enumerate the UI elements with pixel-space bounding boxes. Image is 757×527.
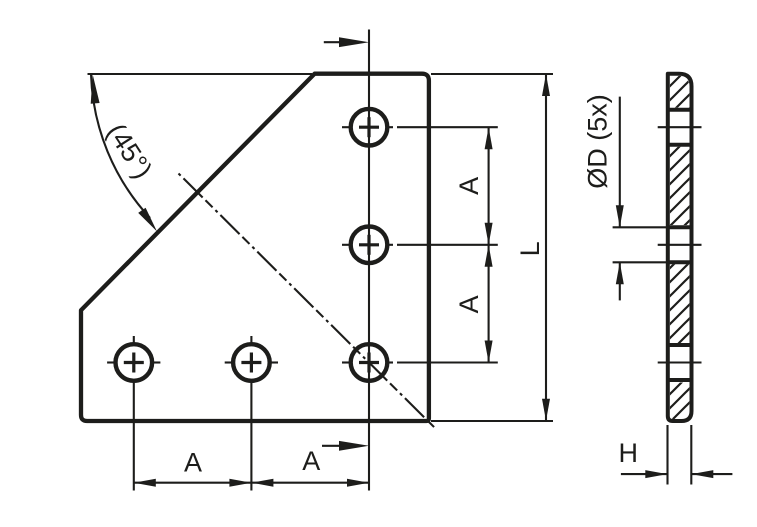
svg-text:ØD (5x): ØD (5x) [583, 94, 613, 189]
svg-text:A: A [454, 295, 484, 313]
svg-text:A: A [184, 448, 202, 478]
svg-text:(45°): (45°) [101, 118, 158, 184]
svg-text:A: A [302, 446, 320, 476]
svg-text:A: A [454, 177, 484, 195]
svg-text:L: L [515, 241, 545, 256]
svg-text:H: H [618, 438, 638, 468]
